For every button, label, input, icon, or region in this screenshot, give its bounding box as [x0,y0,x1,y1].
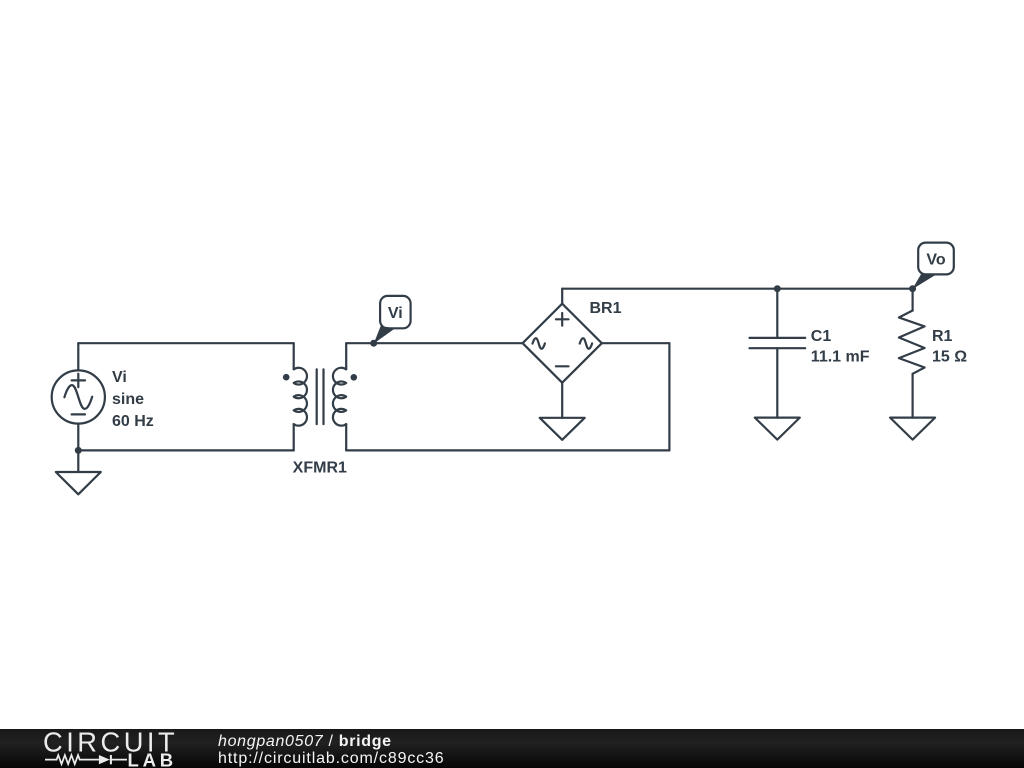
transformer XFMR1 primary winding [294,368,307,426]
svg-text:BR1: BR1 [590,300,622,317]
wire capacitor top stub [776,289,778,338]
svg-text:Vo: Vo [926,252,945,269]
capacitor C1 plates [750,338,806,348]
ground for source [56,472,101,494]
svg-text:11.1 mF: 11.1 mF [811,349,870,366]
transformer secondary phase dot [351,374,358,381]
wire transformer primary bottom lead [293,424,295,450]
wire bridge top stub [561,289,563,304]
svg-text:C1: C1 [811,328,832,345]
wire secondary right riser [668,343,670,450]
voltage source sine symbol [64,385,92,409]
voltage source V1 circle [52,370,105,423]
transformer label XFMR1 [293,460,347,477]
node flag Vo tail [912,274,936,289]
wire secondary bottom rail [346,449,669,451]
ground for capacitor [755,418,800,440]
voltage source minus sign [72,413,85,415]
svg-text:60 Hz: 60 Hz [112,413,154,430]
transformer core lines [317,369,324,424]
wire source top stub [77,343,79,370]
wire bridge bottom stub [561,383,563,418]
wire source bottom stub [77,424,79,472]
junction dot at node Vi [370,340,377,347]
resistor R1 zigzag [899,311,925,374]
ground for bridge [540,418,585,440]
bridge rectifier BR1 diamond [523,304,602,383]
resistor label R1 15 ohm [932,328,967,366]
wire primary bottom rail [78,449,293,451]
wire resistor bottom stub [911,374,913,418]
voltage source plus sign [72,374,85,387]
wire transformer secondary bottom lead [345,424,347,450]
ground for resistor [890,418,935,440]
svg-text:Vi: Vi [388,305,403,322]
node flag Vi tail [374,326,395,344]
junction dot at source ground node [75,447,82,454]
wire transformer secondary top lead [345,343,347,369]
bridge BR1 plus sign [556,313,569,326]
bridge BR1 right ac tilde [580,338,592,349]
svg-text:15 Ω: 15 Ω [932,349,967,366]
node flag Vo text [926,252,945,269]
wire capacitor bottom stub [776,348,778,417]
wire transformer primary top lead [293,343,295,369]
wire resistor top stub [911,289,913,311]
transformer XFMR1 secondary winding [333,368,346,426]
svg-text:XFMR1: XFMR1 [293,460,347,477]
node flag Vi text [388,305,403,322]
junction dot at capacitor node [774,285,781,292]
svg-text:sine: sine [112,391,144,408]
wire riser to bridge right corner [602,342,670,344]
svg-text:LAB: LAB [128,749,177,768]
capacitor label C1 11.1 mF [811,328,870,366]
wire primary top rail [78,342,293,344]
bridge BR1 left ac tilde [533,338,545,349]
node flag Vi box [380,296,411,328]
node flag Vo box [918,243,954,275]
CircuitLab logo [0,728,200,768]
footer bar [0,729,1024,768]
svg-text:Vi: Vi [112,369,127,386]
bridge label BR1 [590,300,622,317]
bridge BR1 minus sign [556,365,569,367]
svg-text:R1: R1 [932,328,953,345]
wire secondary top rail [346,342,523,344]
transformer primary phase dot [283,374,290,381]
junction dot at node Vo [909,285,916,292]
wire output top rail [562,288,912,290]
footer text [218,733,445,767]
voltage source label Vi sine 60 Hz [112,369,154,430]
